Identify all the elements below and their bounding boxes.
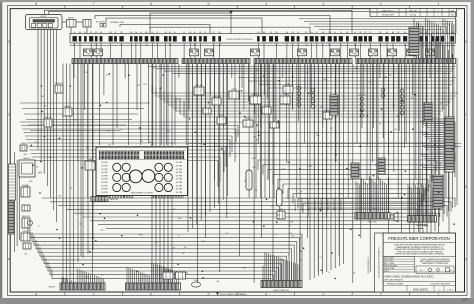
gauge module xyxy=(19,157,35,177)
svg-text:GN: GN xyxy=(145,44,147,46)
svg-text:HDLP SW: HDLP SW xyxy=(44,117,52,119)
svg-text:439: 439 xyxy=(70,188,73,190)
svg-text:12B: 12B xyxy=(58,196,61,198)
svg-text:B+: B+ xyxy=(297,32,299,34)
connector pair xyxy=(100,24,106,27)
fuse F10 xyxy=(388,49,397,56)
switch S4 xyxy=(44,117,52,127)
svg-text:337: 337 xyxy=(184,247,187,249)
diode packs D10-D17 xyxy=(297,86,315,108)
svg-text:WIPER SW: WIPER SW xyxy=(55,83,64,85)
svg-text:337: 337 xyxy=(320,107,323,109)
svg-text:OIL PRS: OIL PRS xyxy=(101,175,107,177)
svg-text:POWER DISTRIBUTION MODULE: POWER DISTRIBUTION MODULE xyxy=(226,39,253,41)
svg-text:OIL PRS: OIL PRS xyxy=(176,182,182,184)
svg-text:12B: 12B xyxy=(373,209,376,211)
fuse F4 xyxy=(205,49,214,56)
splice box xyxy=(23,243,31,249)
svg-text:CHK 4.23.98: CHK 4.23.98 xyxy=(384,260,393,262)
wire xyxy=(62,21,67,23)
svg-text:OIL PRS: OIL PRS xyxy=(101,162,107,164)
svg-text:F197: F197 xyxy=(462,298,468,302)
svg-text:1 OF 2: 1 OF 2 xyxy=(447,289,454,291)
svg-text:337: 337 xyxy=(155,242,158,244)
bulkhead connector strip seg1 xyxy=(72,59,178,64)
ignition switch S1 xyxy=(26,15,63,30)
svg-text:6: 6 xyxy=(150,292,152,296)
svg-text:6: 6 xyxy=(150,2,152,6)
switch S2 xyxy=(55,83,64,93)
svg-text:RB: RB xyxy=(392,32,394,34)
wire bus xyxy=(70,45,456,47)
title block release strip xyxy=(375,233,384,292)
zone numbers bottom xyxy=(35,292,439,296)
switch S3 xyxy=(63,106,72,116)
svg-text:OIL PRS: OIL PRS xyxy=(176,166,182,168)
svg-text:4: 4 xyxy=(265,292,267,296)
svg-text:B+: B+ xyxy=(74,32,76,34)
svg-text:OIL PRS: OIL PRS xyxy=(176,179,182,181)
svg-text:C4: C4 xyxy=(226,233,228,235)
svg-text:12B: 12B xyxy=(256,70,259,72)
svg-text:285: 285 xyxy=(25,254,28,256)
wire bundle mid verticals xyxy=(152,64,344,284)
wires top-right comb xyxy=(417,18,454,59)
connector strip left edge xyxy=(9,201,15,234)
relay K5 xyxy=(280,93,290,104)
svg-text:B+: B+ xyxy=(140,32,142,34)
svg-text:12B: 12B xyxy=(182,253,185,255)
svg-text:7: 7 xyxy=(93,292,95,296)
svg-text:DIODE PK: DIODE PK xyxy=(358,95,365,97)
wire bundle left verticals xyxy=(15,152,20,252)
svg-text:OIL PRS: OIL PRS xyxy=(176,169,182,171)
svg-text:OIL PRS: OIL PRS xyxy=(101,185,107,187)
wires PDM to bulkhead xyxy=(75,43,453,59)
svg-text:7B: 7B xyxy=(306,73,308,75)
svg-text:23F: 23F xyxy=(447,102,450,104)
svg-text:RB: RB xyxy=(110,32,112,34)
scan edge top xyxy=(0,0,474,2)
scan edge right xyxy=(471,0,474,304)
svg-text:23F: 23F xyxy=(255,190,258,192)
svg-text:3: 3 xyxy=(322,292,324,296)
svg-text:IGN SW: IGN SW xyxy=(40,16,46,18)
svg-text:337: 337 xyxy=(71,274,74,276)
svg-text:OIL PRS: OIL PRS xyxy=(101,172,107,174)
svg-text:C4: C4 xyxy=(275,234,277,236)
wire xyxy=(49,12,456,34)
svg-text:23F: 23F xyxy=(300,191,303,193)
fuse F2 xyxy=(94,49,103,56)
svg-text:23F: 23F xyxy=(340,193,343,195)
svg-text:3: 3 xyxy=(322,2,324,6)
zone numbers top xyxy=(35,2,439,6)
svg-text:B+: B+ xyxy=(194,32,196,34)
relay K3 xyxy=(229,89,239,99)
svg-text:UNLESS OTHERWISE NOTED DIMENSI: UNLESS OTHERWISE NOTED DIMENSIONS xyxy=(421,259,450,261)
relay ACC xyxy=(83,20,91,28)
connector strip right C1 xyxy=(445,117,454,172)
svg-text:FRT CTRL: FRT CTRL xyxy=(164,270,172,272)
svg-text:OIL PRS: OIL PRS xyxy=(176,189,182,191)
svg-text:2: 2 xyxy=(380,292,382,296)
connector strip C7 xyxy=(351,163,359,178)
svg-text:WIPER: WIPER xyxy=(231,89,237,91)
wires lower bus xyxy=(148,67,456,74)
fuse F9 xyxy=(369,49,378,56)
svg-text:285: 285 xyxy=(395,129,398,131)
svg-text:HDLP RLY: HDLP RLY xyxy=(195,85,204,87)
svg-text:RB: RB xyxy=(263,32,265,34)
module box3 xyxy=(176,272,186,279)
svg-text:OIL PRS: OIL PRS xyxy=(101,192,107,194)
wires bulkhead drops xyxy=(74,64,454,284)
switch S9 xyxy=(21,231,30,241)
svg-text:337: 337 xyxy=(411,98,414,100)
svg-text:C4: C4 xyxy=(435,197,437,199)
svg-text:337: 337 xyxy=(74,120,77,122)
wire number labels xyxy=(24,68,450,283)
svg-text:2: 2 xyxy=(380,2,382,6)
wire xyxy=(95,16,330,34)
svg-text:DO NOT SCALE THIS DRAWING: DO NOT SCALE THIS DRAWING xyxy=(219,293,247,296)
relay K2 xyxy=(212,96,221,105)
fuse F12 xyxy=(426,49,435,56)
wire xyxy=(76,21,83,23)
sheet number note xyxy=(462,298,468,302)
svg-text:T06-25972-000 REV 4: T06-25972-000 REV 4 xyxy=(368,256,370,273)
wire bundle center xyxy=(42,198,455,245)
svg-text:337: 337 xyxy=(439,164,442,166)
wire xyxy=(188,146,462,148)
connector strip right C2 xyxy=(433,175,443,208)
svg-text:GN: GN xyxy=(305,44,307,46)
svg-text:C4: C4 xyxy=(38,226,40,228)
wire bundle upper right xyxy=(152,85,458,117)
switch S6 xyxy=(21,184,30,197)
svg-text:7B: 7B xyxy=(379,124,381,126)
svg-text:337: 337 xyxy=(108,145,111,147)
svg-text:285: 285 xyxy=(253,212,256,214)
svg-text:1: 1 xyxy=(437,292,439,296)
svg-text:285: 285 xyxy=(277,188,280,190)
svg-text:B+: B+ xyxy=(354,32,356,34)
wires upper right horizontals xyxy=(238,78,456,89)
dome bulb xyxy=(192,280,201,287)
fuse F1 xyxy=(84,49,93,56)
svg-text:285: 285 xyxy=(36,167,39,169)
svg-text:PDU CONN: PDU CONN xyxy=(368,222,377,224)
wire xyxy=(106,18,262,33)
svg-text:337: 337 xyxy=(106,75,109,77)
svg-text:C4: C4 xyxy=(320,257,322,259)
wire xyxy=(120,25,210,34)
wire xyxy=(188,143,462,145)
svg-text:1: 1 xyxy=(437,2,439,6)
relay K9 xyxy=(217,115,226,124)
svg-text:C4: C4 xyxy=(275,118,277,120)
wires into right strip xyxy=(420,119,445,170)
dimmer rheostat R1 xyxy=(246,170,252,190)
svg-text:285: 285 xyxy=(139,280,142,282)
svg-text:OIL PRS: OIL PRS xyxy=(176,192,182,194)
fuse F3 xyxy=(190,49,199,56)
fuse F6 xyxy=(298,49,307,56)
wires into bottom connectors xyxy=(62,252,299,283)
diode pair D10 xyxy=(381,88,385,97)
relay K4 xyxy=(250,93,261,104)
diode pack D1-D4 xyxy=(358,95,365,117)
svg-text:PB: PB xyxy=(420,32,422,34)
svg-text:SPLICE: SPLICE xyxy=(245,118,251,120)
svg-text:23F: 23F xyxy=(152,196,155,198)
wires into PDU connectors xyxy=(356,176,435,215)
label ACC RELAY xyxy=(96,21,106,24)
zone boundary ticks xyxy=(65,6,410,296)
wire xyxy=(45,10,353,33)
svg-text:FIREWALL CONN: FIREWALL CONN xyxy=(110,21,125,24)
svg-text:B+: B+ xyxy=(334,32,336,34)
svg-text:C4: C4 xyxy=(422,124,424,126)
svg-text:337: 337 xyxy=(393,106,396,108)
svg-text:OIL PRS: OIL PRS xyxy=(176,185,182,187)
wire bundle top-right staircase xyxy=(299,19,456,34)
fuse F11 xyxy=(407,49,416,56)
svg-text:12B: 12B xyxy=(41,96,44,98)
svg-text:4: 4 xyxy=(265,2,267,6)
junction arrow xyxy=(229,11,232,14)
vertical wire labels xyxy=(294,199,343,211)
svg-text:OIL PRS: OIL PRS xyxy=(101,179,107,181)
svg-text:7B: 7B xyxy=(120,129,122,131)
wire bundle left feeders xyxy=(20,103,150,131)
svg-text:OIL PRS: OIL PRS xyxy=(101,182,107,184)
relay K12 xyxy=(323,110,332,119)
zone letters sides xyxy=(8,40,468,262)
horn symbol xyxy=(390,212,398,222)
connector strip C4 xyxy=(378,158,385,174)
svg-text:C4: C4 xyxy=(328,272,330,274)
svg-text:OIL PRS: OIL PRS xyxy=(101,169,107,171)
svg-text:INT FD: INT FD xyxy=(264,105,270,107)
fuse F8 xyxy=(350,49,359,56)
svg-text:PB: PB xyxy=(292,32,294,34)
svg-text:OIL PRS: OIL PRS xyxy=(176,172,182,174)
wire junction dots xyxy=(31,67,455,279)
svg-text:23F: 23F xyxy=(323,79,326,81)
svg-text:DIMMER: DIMMER xyxy=(64,106,71,108)
wire xyxy=(150,13,231,33)
buzzer module xyxy=(277,209,285,219)
title block xyxy=(383,233,456,292)
dash connector strip xyxy=(126,283,181,290)
svg-text:SPEEDO: SPEEDO xyxy=(22,231,29,233)
svg-text:23F: 23F xyxy=(316,184,319,186)
wire bundle left drops xyxy=(38,30,57,223)
relay K6 xyxy=(283,84,293,93)
svg-text:4: 4 xyxy=(438,15,439,17)
svg-text:8: 8 xyxy=(35,292,37,296)
switch S5 xyxy=(20,142,27,151)
fuse F7 xyxy=(331,49,340,56)
svg-text:B+: B+ xyxy=(174,32,176,34)
svg-text:285: 285 xyxy=(369,82,372,84)
svg-text:337: 337 xyxy=(432,201,435,203)
wire bundle right staircase xyxy=(258,160,436,220)
relay K1 xyxy=(194,85,204,95)
relay K8 xyxy=(203,108,211,114)
bulkhead connector strip seg4 xyxy=(356,59,456,64)
svg-text:C4: C4 xyxy=(178,235,180,237)
svg-text:DOME: DOME xyxy=(194,280,199,282)
svg-text:C4: C4 xyxy=(32,236,34,238)
vertical note xyxy=(368,256,370,273)
svg-text:7: 7 xyxy=(93,2,95,6)
svg-text:337: 337 xyxy=(330,128,333,130)
instrument cluster U1 xyxy=(96,147,188,198)
svg-text:C4: C4 xyxy=(299,238,301,240)
wire xyxy=(150,27,310,33)
pill component xyxy=(277,189,283,206)
switch S10 xyxy=(85,158,95,170)
svg-text:PER REQUEST NUMBER: PER REQUEST NUMBER xyxy=(387,284,403,286)
horn H1 xyxy=(28,221,33,226)
svg-text:OIL PRS: OIL PRS xyxy=(176,175,182,177)
svg-text:GN: GN xyxy=(165,32,167,34)
svg-text:FREIGHTLINER CORPORATION: FREIGHTLINER CORPORATION xyxy=(388,236,449,241)
fuse F5 xyxy=(251,49,260,56)
svg-text:0501: 0501 xyxy=(451,15,455,17)
svg-text:5: 5 xyxy=(208,292,210,296)
diode pack D5-D9 xyxy=(400,89,404,115)
wires upper-mid drops xyxy=(242,64,311,128)
9-way connector strip xyxy=(261,281,302,293)
wire bundle bottom nest xyxy=(28,225,302,280)
svg-text:OIL PRS: OIL PRS xyxy=(101,166,107,168)
svg-text:439: 439 xyxy=(334,104,337,106)
relay K7 xyxy=(262,105,271,114)
wire xyxy=(86,27,88,34)
chassis connector strip xyxy=(48,283,105,290)
svg-text:OIL PRS: OIL PRS xyxy=(176,162,182,164)
scan edge bottom xyxy=(0,298,474,304)
wire xyxy=(70,27,72,34)
terminal strip left xyxy=(9,164,16,200)
label FIREWALL CONN xyxy=(110,21,125,24)
svg-text:337: 337 xyxy=(292,76,295,78)
svg-text:439: 439 xyxy=(255,140,258,142)
svg-text:439: 439 xyxy=(253,137,256,139)
svg-text:REVISED WIRE: REVISED WIRE xyxy=(382,15,394,17)
svg-text:D66-25972: D66-25972 xyxy=(413,288,428,292)
svg-text:5: 5 xyxy=(208,2,210,6)
relay BAT xyxy=(67,17,77,27)
svg-text:7B: 7B xyxy=(173,247,175,249)
wire bundle right verticals xyxy=(414,18,457,235)
svg-text:OIL PRS: OIL PRS xyxy=(101,189,107,191)
svg-text:SIZE D: SIZE D xyxy=(384,271,390,273)
svg-text:GN: GN xyxy=(322,32,324,34)
svg-text:12B: 12B xyxy=(140,141,143,143)
switch S7 xyxy=(22,205,30,211)
svg-text:285: 285 xyxy=(44,106,47,108)
connector strip top-right C3 xyxy=(409,27,419,55)
wires right-mid verticals xyxy=(362,64,404,180)
wires cluster-left verticals xyxy=(63,64,93,284)
svg-text:285: 285 xyxy=(101,274,104,276)
dash harness connector xyxy=(408,216,437,227)
svg-text:12B: 12B xyxy=(153,68,156,70)
relay K11 xyxy=(270,122,279,128)
module box2 xyxy=(163,270,173,279)
switch S8 xyxy=(22,215,31,228)
relay K10 xyxy=(243,118,253,127)
scan edge left xyxy=(0,0,2,304)
svg-text:PB: PB xyxy=(135,32,137,34)
svg-text:12B: 12B xyxy=(375,165,378,167)
svg-text:8: 8 xyxy=(35,2,37,6)
PDU connector strip xyxy=(355,213,390,224)
revision table xyxy=(370,9,457,17)
svg-text:12B: 12B xyxy=(427,144,430,146)
bulkhead connector strip seg3 xyxy=(254,59,352,64)
connector strip C6 xyxy=(424,103,432,121)
svg-text:C4: C4 xyxy=(235,156,237,158)
svg-text:INSTRUMENT CLUSTER: INSTRUMENT CLUSTER xyxy=(131,193,153,195)
data link connector xyxy=(91,197,119,202)
svg-text:337: 337 xyxy=(271,206,274,208)
svg-text:12B: 12B xyxy=(299,251,302,253)
svg-text:7B: 7B xyxy=(289,226,291,228)
svg-text:C4: C4 xyxy=(215,145,217,147)
svg-text:7B: 7B xyxy=(226,213,228,215)
connector strip C5 xyxy=(330,95,338,115)
svg-text:DWN J SMITH: DWN J SMITH xyxy=(384,258,394,260)
svg-text:DWG DIAG SCHEM MAIN FLX DDC: DWG DIAG SCHEM MAIN FLX DDC xyxy=(385,275,435,279)
bulkhead connector strip seg2 xyxy=(182,59,250,64)
svg-text:DIM RLY: DIM RLY xyxy=(213,96,220,98)
footnote xyxy=(216,292,247,296)
wire bundle mid left xyxy=(20,122,455,187)
power distribution module J-PDM xyxy=(70,32,456,46)
